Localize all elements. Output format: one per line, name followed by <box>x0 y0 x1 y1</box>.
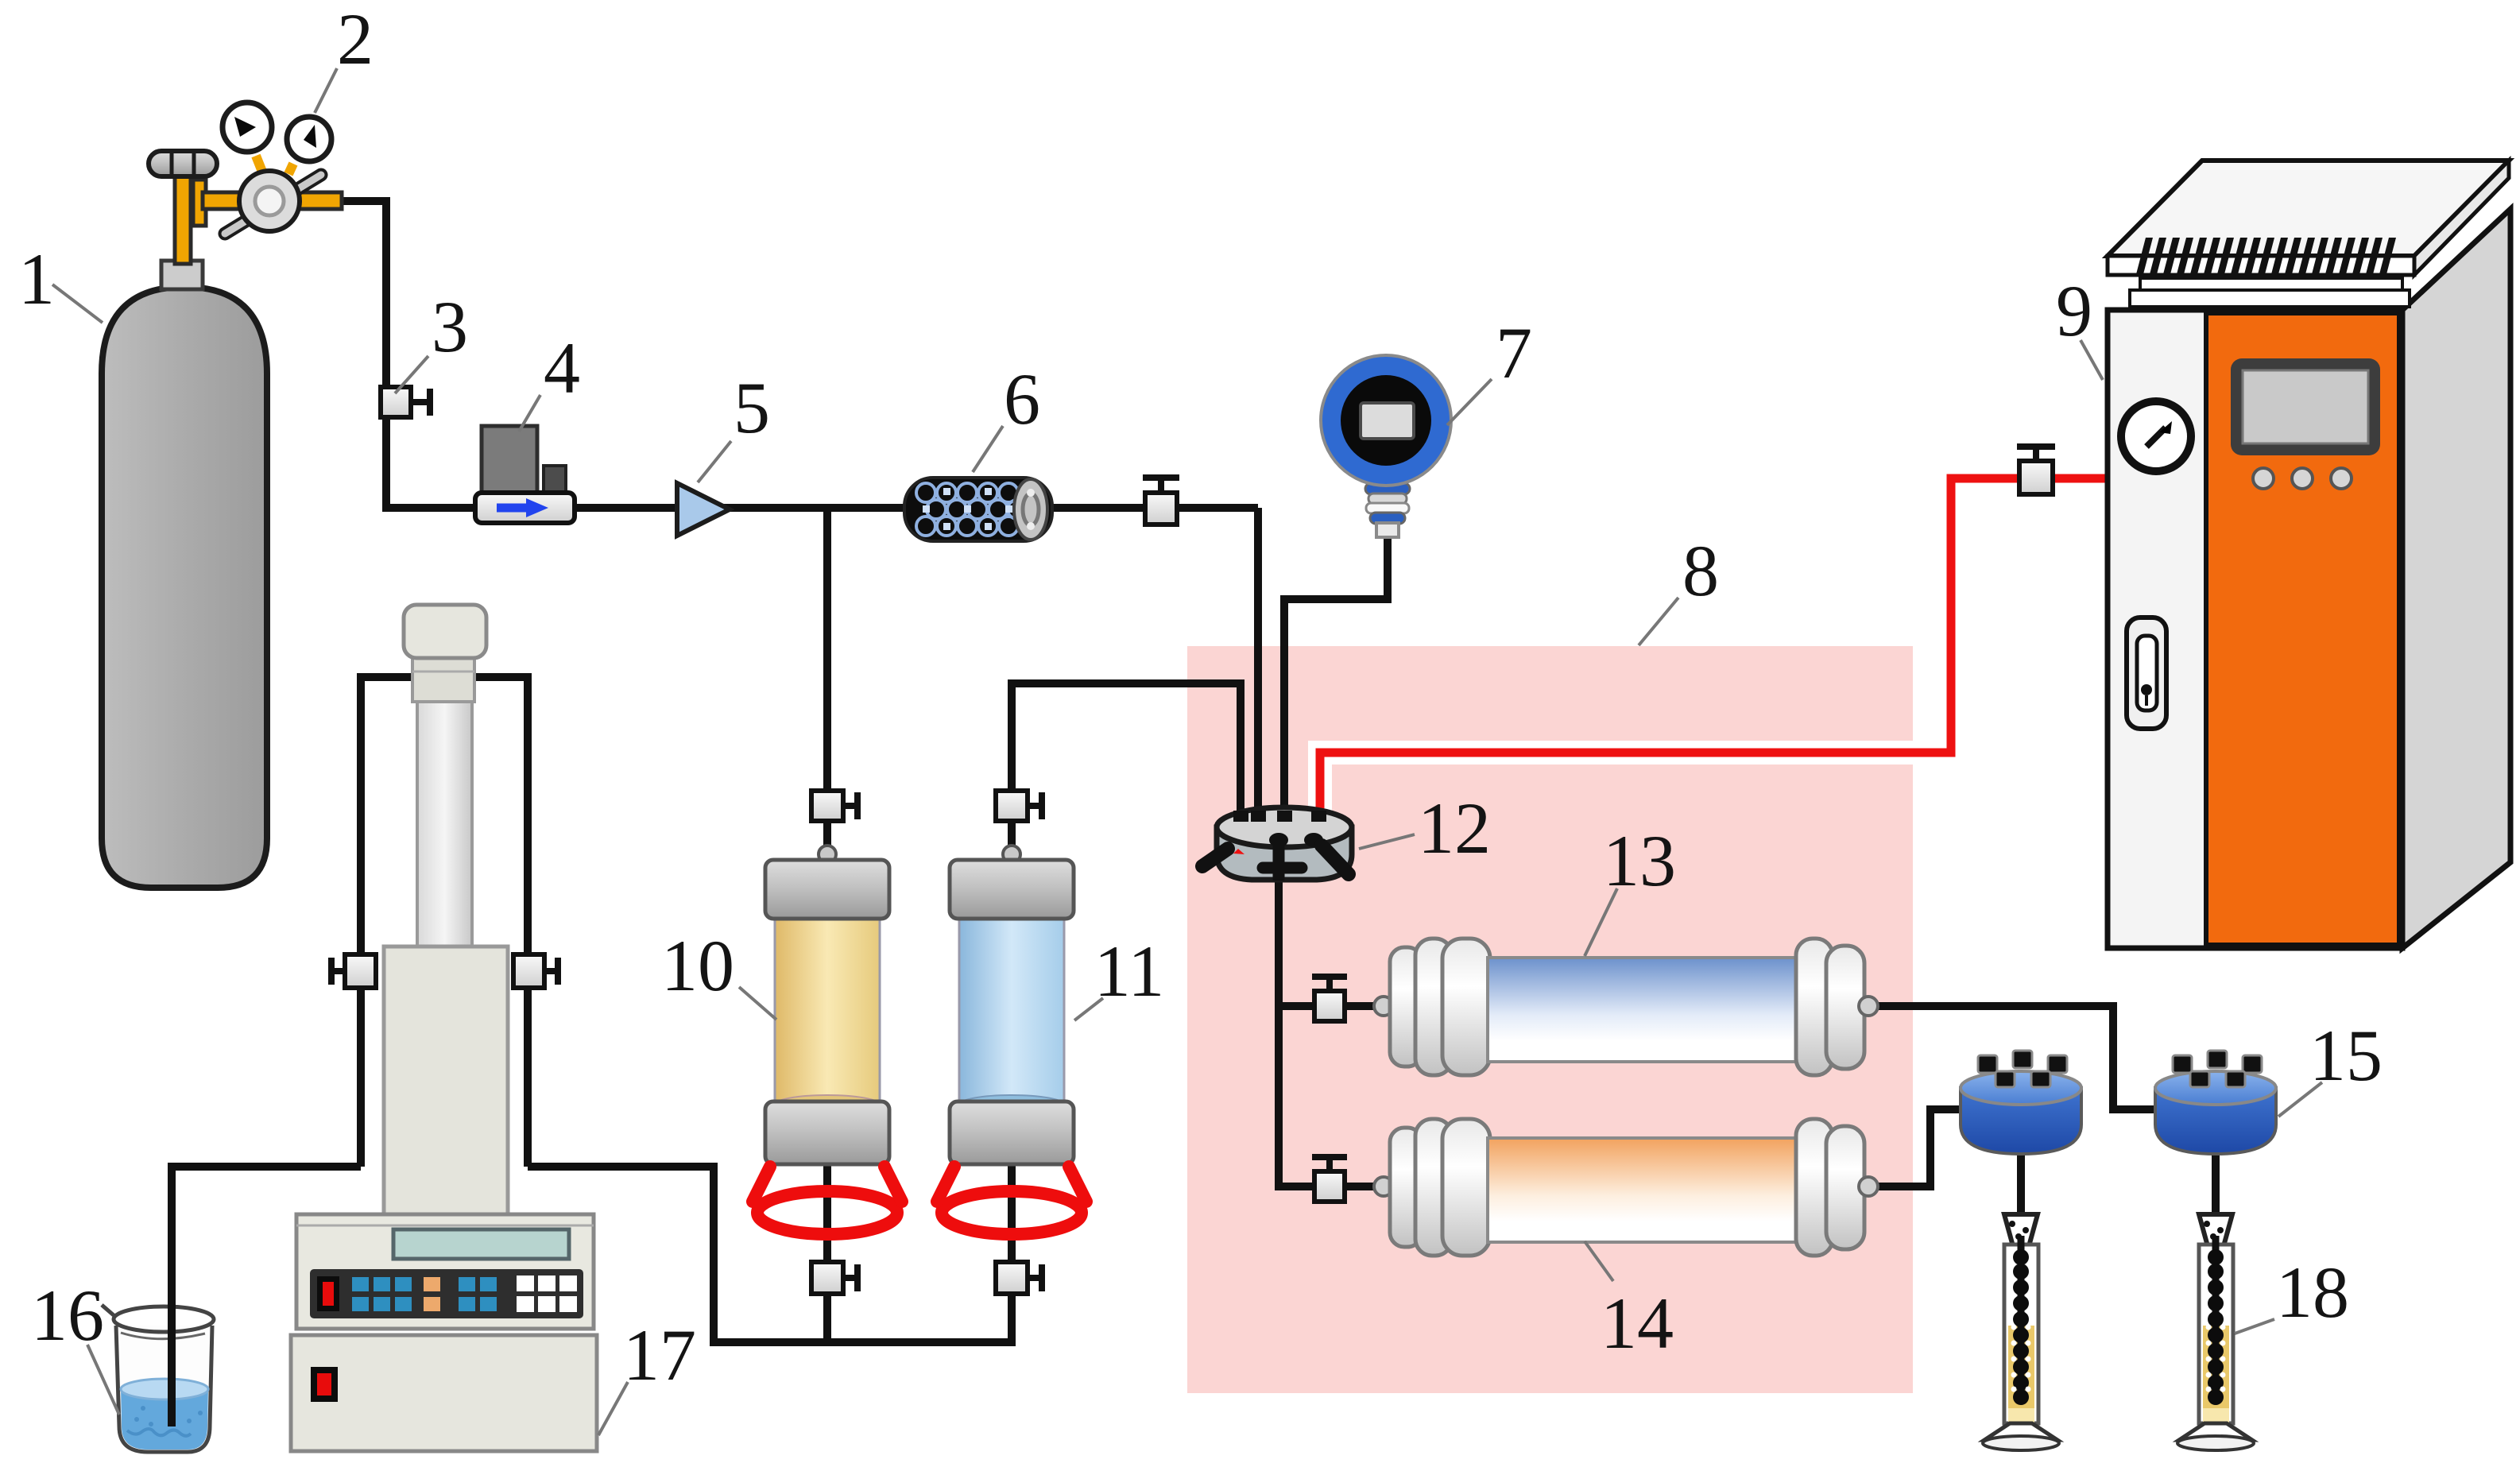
wire: cap 1 to graduated cylinder 1 <box>2017 1148 2025 1256</box>
wire: column 11 valve to cap <box>1008 819 1016 860</box>
valve below column 10 <box>811 1262 857 1294</box>
gas regulator 2 <box>149 103 342 264</box>
wire: cap 2 to graduated cylinder 2 <box>2212 1148 2220 1256</box>
wire: branch to membrane module 13 <box>1275 1002 1379 1010</box>
wire: junction to column 10 top <box>823 508 831 795</box>
extraction column 10 <box>753 846 902 1234</box>
svg-text:10: 10 <box>661 925 734 1006</box>
valve below column 11 <box>996 1262 1042 1294</box>
wire: branch to membrane module 14 <box>1275 1183 1379 1190</box>
carbon filter 6 <box>904 478 1052 541</box>
collection cap 1 (15) <box>1961 1051 2081 1154</box>
valve on pump left tube <box>331 954 376 988</box>
collection cap 2 (15) <box>2155 1051 2276 1154</box>
svg-text:16: 16 <box>31 1275 104 1356</box>
valve after filter 6 <box>1143 478 1179 525</box>
wire: column 11 bottom valve to feed line <box>1008 1292 1016 1346</box>
graduated cylinder 1 (18) <box>1983 1214 2059 1450</box>
extraction column 11 <box>937 846 1086 1234</box>
rotary valve 12 <box>1202 807 1352 881</box>
valve 3 <box>381 387 430 417</box>
wire: main line check valve to filter 6 to corner <box>719 504 1258 512</box>
svg-text:18: 18 <box>2276 1252 2349 1333</box>
valve on pump right tube <box>513 954 558 988</box>
svg-text:4: 4 <box>544 327 580 408</box>
svg-text:11: 11 <box>1094 931 1165 1012</box>
gas cylinder 1 <box>102 261 267 888</box>
svg-text:6: 6 <box>1004 358 1040 439</box>
wire: column 11 bottom cap through mantle to valve <box>1008 1162 1016 1264</box>
wire: pump outlet loop over piston <box>361 673 528 681</box>
valve above column 11 <box>996 791 1042 821</box>
svg-text:17: 17 <box>623 1314 696 1396</box>
wire: right tube to columns feed line <box>528 1167 1012 1342</box>
membrane contactor 14 <box>1374 1119 1878 1256</box>
valve on module 14 branch <box>1312 1157 1347 1202</box>
check valve 5 <box>677 483 730 536</box>
valve on module 13 branch <box>1312 977 1347 1021</box>
graduated cylinder 2 (18) <box>2177 1214 2254 1450</box>
wire: module 14 outlet to collection cap 1 <box>1872 1109 1964 1186</box>
beaker 16 <box>102 1167 214 1452</box>
svg-text:5: 5 <box>734 367 770 448</box>
svg-text:2: 2 <box>337 0 374 79</box>
wire: module 13 outlet to collection cap 2 <box>1872 1006 2159 1109</box>
wire: regulator outlet to valve 3 down to flow controller <box>340 201 475 508</box>
svg-text:14: 14 <box>1601 1283 1674 1364</box>
heated zone 8 (pink region) <box>1187 646 1913 1393</box>
valve on heater red line <box>2017 447 2055 494</box>
wire: rotary valve 12 outlet down <box>1275 866 1283 1186</box>
membrane contactor 13 <box>1374 939 1878 1075</box>
wire: pump right tube down <box>524 673 532 1167</box>
heating cabinet 9 <box>2108 161 2510 948</box>
wire: left tube to beaker 16 <box>172 1167 361 1423</box>
wire: pressure transmitter 7 to rotary valve 12 <box>1284 532 1388 823</box>
heater line (red) from back-pressure heater to rotary valve 12 <box>1320 478 2108 823</box>
mass flow controller 4 <box>475 426 575 523</box>
wire: flow controller to check valve 5 <box>575 504 677 512</box>
svg-text:7: 7 <box>1496 312 1532 393</box>
wire: column 10 valve to cap <box>823 819 831 860</box>
svg-text:3: 3 <box>432 286 468 367</box>
svg-text:9: 9 <box>2056 270 2092 351</box>
wire: column 10 bottom cap through mantle to valve <box>823 1162 831 1264</box>
pressure transmitter 7 <box>1321 355 1451 537</box>
wire: main line down to rotary valve 12 <box>1254 508 1262 823</box>
syringe pump 17 <box>291 605 597 1451</box>
heater line (red) white casing <box>1320 478 2108 823</box>
wire: column 11 top to rotary valve 12 <box>1012 683 1241 823</box>
wire: column 10 bottom valve to feed line <box>823 1292 831 1346</box>
svg-text:1: 1 <box>18 238 55 319</box>
valve above column 10 <box>811 791 857 821</box>
wire: pump left tube down <box>357 673 365 1167</box>
svg-text:13: 13 <box>1603 820 1676 901</box>
svg-text:12: 12 <box>1418 788 1491 869</box>
svg-text:8: 8 <box>1682 530 1719 611</box>
